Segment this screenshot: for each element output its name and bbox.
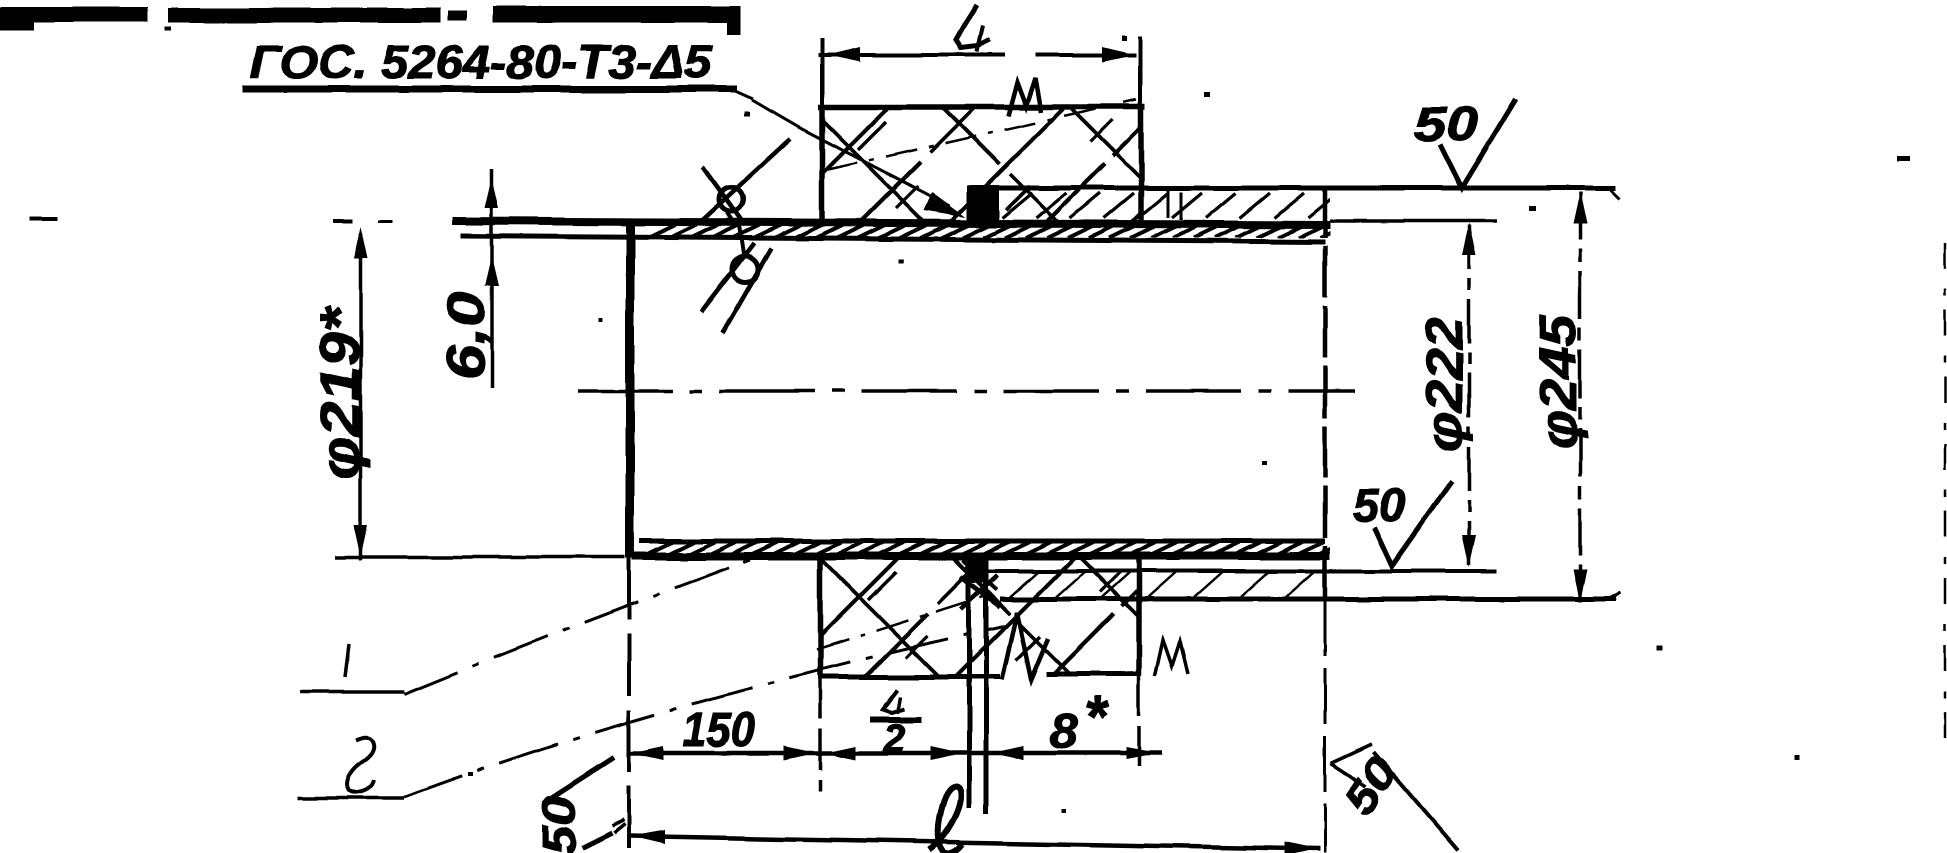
- top collar right edge: [1138, 107, 1144, 222]
- dim l right arrow: [1284, 842, 1318, 853]
- chained dimension line: [629, 751, 1162, 756]
- scan edge marks: [30, 217, 58, 221]
- svg-text:50: 50: [533, 795, 585, 853]
- pipe top wall hatching: [648, 225, 1347, 238]
- pipe top outer line right extension (d222 top): [1330, 219, 1497, 223]
- border bar dash: [448, 11, 467, 21]
- small tick mark: [345, 644, 349, 677]
- pipe bottom outer line: [632, 552, 1330, 560]
- socket top outer line: [996, 186, 1616, 191]
- arrow at 818 left2: [824, 746, 856, 760]
- dim phi219 bottom arrow: [354, 525, 368, 557]
- bottom collar bottom line: [818, 675, 1000, 680]
- bottom collar right extension down: [1137, 676, 1141, 772]
- svg-text:φ222: φ222: [1416, 317, 1474, 452]
- scan specks: [744, 112, 750, 117]
- top collar left edge: [819, 107, 825, 224]
- dim phi222 dimension line: [1467, 225, 1471, 566]
- socket bottom outer line: [1000, 597, 1616, 602]
- arrow at 964 right: [930, 746, 962, 760]
- svg-text:2: 2: [882, 717, 905, 761]
- dim l1 right extension line: [1138, 36, 1142, 107]
- bottom collar left extension down: [818, 676, 822, 792]
- dim 6,0 lower arrow: [485, 256, 499, 286]
- pipe right end edge: [1323, 186, 1328, 600]
- border bar fragment 1: [0, 7, 148, 22]
- leader b arrowhead: [1002, 612, 1048, 680]
- bottom weld bead (crossed square): [961, 577, 1000, 607]
- arrow at 990 left: [992, 746, 1024, 760]
- leader a dash-dot line: [404, 558, 755, 694]
- svg-text:6,0: 6,0: [436, 292, 496, 380]
- bottom collar axis dash-dot diagonal: [816, 596, 985, 650]
- leader arrowhead at top weld: [924, 192, 966, 217]
- dim l label (script ell): [929, 787, 963, 853]
- squiggle mark: [347, 737, 374, 792]
- dim l1 label (handwritten l1): [956, 5, 990, 48]
- dim l left arrow: [631, 830, 665, 844]
- svg-text:50: 50: [1335, 748, 1408, 824]
- pipe right end extension down: [1324, 600, 1327, 853]
- dim l1 right arrow: [1103, 47, 1136, 62]
- svg-text:φ219*: φ219*: [308, 306, 371, 480]
- pipe top outer line: [452, 221, 1330, 225]
- pipe left edge: [626, 221, 635, 558]
- leader a tail: [300, 690, 404, 694]
- pipe left edge extension down: [627, 558, 631, 853]
- dim phi245 dimension line: [1578, 192, 1582, 602]
- pipe bottom outer line left extension: [335, 555, 625, 559]
- weld mark 50 bottom left: [543, 757, 614, 803]
- weld mark 50 bottom right: [1331, 744, 1372, 763]
- dim l dimension line: [630, 836, 1320, 849]
- svg-text:150: 150: [682, 704, 755, 757]
- surface mark above pipe (circle cross): [703, 167, 742, 221]
- svg-text:50: 50: [1352, 479, 1406, 531]
- arrow at 629 left: [631, 746, 663, 760]
- dim phi245 bottom arrow: [1573, 570, 1587, 602]
- pipe axis center line: [578, 389, 1355, 393]
- leader b dash-dot line: [404, 625, 1008, 797]
- leader line from weld note to top weld: [752, 100, 950, 206]
- weld center extension line b: [984, 556, 989, 814]
- dim 6,0 dimension line: [490, 168, 494, 388]
- socket bottom wall hatching: [1010, 572, 1314, 597]
- pipe bottom inner line: [640, 539, 1325, 544]
- weld center extension line a: [967, 556, 972, 808]
- dim 6,0 upper arrow: [485, 178, 499, 208]
- leader b tail: [297, 796, 404, 800]
- pipe top outer line left extension: [333, 219, 353, 223]
- svg-text:50: 50: [1414, 98, 1478, 151]
- dim phi222 bottom arrow: [1462, 535, 1476, 567]
- dim phi219 top arrow: [354, 227, 368, 259]
- dim l1 left extension line: [820, 38, 824, 107]
- svg-text:ГОС. 5264-80-Т3-Δ5: ГОС. 5264-80-Т3-Δ5: [250, 36, 714, 88]
- dim phi245 top arrow: [1573, 192, 1587, 224]
- dim phi222 top arrow: [1462, 223, 1476, 255]
- top collar top line: [818, 104, 1145, 110]
- dim l1 left arrow: [827, 47, 860, 62]
- bottom collar right edge: [1136, 556, 1142, 676]
- svg-text:φ245: φ245: [1530, 314, 1588, 450]
- weld spec underline: [243, 86, 737, 93]
- bottom collar cross hatching: [778, 546, 1264, 680]
- pipe bottom wall hatching: [646, 542, 1345, 555]
- arrow at 1158 right: [1126, 747, 1158, 759]
- pipe top inner line: [461, 236, 1325, 242]
- svg-text:*: *: [1084, 685, 1109, 750]
- socket bottom inner line (d222 bottom ext): [989, 569, 1497, 573]
- top collar zigzag mark: [1008, 78, 1041, 116]
- dim l1 dimension line: [818, 53, 1005, 57]
- border bar fragment 2: [168, 8, 441, 23]
- svg-text:8: 8: [1050, 703, 1078, 759]
- dim phi219 dimension line: [359, 233, 363, 560]
- bottom collar left edge: [817, 556, 823, 676]
- top weld bead (filled): [967, 185, 999, 223]
- socket top wall hatching: [1002, 190, 1338, 220]
- top collar cross hatching: [768, 96, 1254, 230]
- top collar axis dash-dot diagonal: [826, 100, 1136, 170]
- bottom collar zigzag mark: [1155, 640, 1188, 676]
- dim l1/2 label numerator: [883, 690, 905, 713]
- border bar fragment 3 with corner hook: [493, 6, 740, 23]
- surface mark below pipe (circle cross): [701, 243, 754, 312]
- arrow at 818 right: [784, 746, 816, 760]
- dim l1/2 fraction bar: [870, 717, 922, 723]
